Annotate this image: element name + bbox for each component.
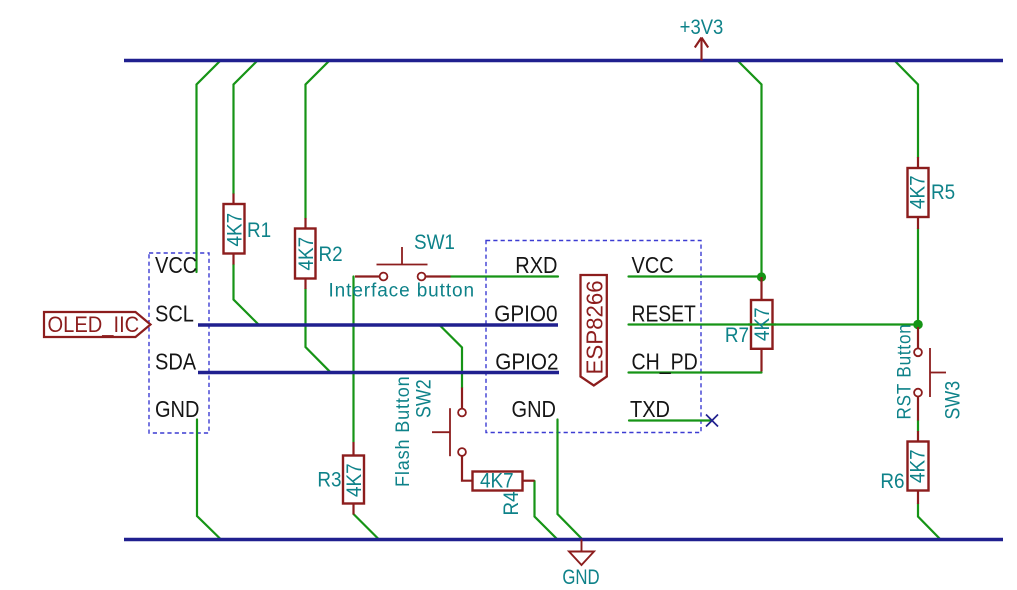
- svg-text:R3: R3: [317, 469, 341, 492]
- svg-text:GPIO0: GPIO0: [494, 300, 557, 326]
- svg-text:R7: R7: [725, 324, 749, 347]
- svg-text:GND: GND: [155, 396, 199, 423]
- svg-text:R6: R6: [880, 470, 904, 493]
- svg-text:4K7: 4K7: [295, 237, 318, 271]
- svg-text:VCC: VCC: [155, 252, 197, 279]
- svg-text:R4: R4: [500, 491, 523, 515]
- svg-text:GPIO2: GPIO2: [495, 348, 558, 374]
- svg-text:RXD: RXD: [515, 252, 557, 279]
- svg-text:SW1: SW1: [414, 231, 455, 254]
- svg-text:SDA: SDA: [155, 348, 197, 375]
- svg-text:Interface button: Interface button: [329, 281, 475, 302]
- svg-text:RESET: RESET: [632, 302, 696, 327]
- svg-text:4K7: 4K7: [751, 307, 774, 341]
- svg-text:SCL: SCL: [155, 300, 194, 327]
- svg-text:Flash Button: Flash Button: [392, 375, 414, 487]
- svg-text:OLED_IIC: OLED_IIC: [48, 313, 140, 337]
- svg-text:VCC: VCC: [632, 252, 674, 279]
- svg-text:GND: GND: [562, 566, 599, 589]
- svg-text:GND: GND: [512, 396, 556, 423]
- svg-text:R5: R5: [931, 181, 955, 204]
- svg-text:R1: R1: [247, 219, 271, 242]
- svg-text:SW3: SW3: [941, 381, 965, 420]
- svg-text:4K7: 4K7: [343, 463, 366, 497]
- svg-text:R2: R2: [319, 243, 343, 266]
- svg-text:+3V3: +3V3: [680, 16, 724, 39]
- svg-text:4K7: 4K7: [907, 449, 930, 483]
- svg-text:4K7: 4K7: [224, 213, 247, 247]
- svg-text:ESP8266: ESP8266: [581, 280, 607, 374]
- svg-text:CH_PD: CH_PD: [632, 349, 698, 375]
- svg-text:TXD: TXD: [630, 396, 670, 423]
- svg-text:SW2: SW2: [412, 379, 436, 418]
- svg-text:4K7: 4K7: [907, 175, 930, 209]
- svg-text:4K7: 4K7: [480, 470, 514, 493]
- svg-text:RST Button: RST Button: [894, 323, 915, 419]
